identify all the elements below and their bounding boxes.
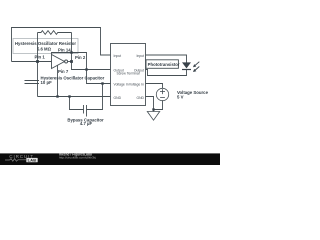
svg-text:GND: GND: [114, 96, 122, 100]
svg-text:4.7 µF: 4.7 µF: [80, 121, 93, 126]
svg-text:Input: Input: [114, 54, 122, 58]
svg-text:5 V: 5 V: [177, 94, 184, 99]
svg-text:Input: Input: [136, 54, 144, 58]
svg-text:5.6 MΩ: 5.6 MΩ: [37, 46, 52, 51]
wire bubble to output junction: [68, 61, 72, 63]
footer logo squiggle: [5, 159, 26, 162]
svg-text:Hysteresis Oscillator Resistor: Hysteresis Oscillator Resistor: [15, 41, 76, 46]
svg-text:Voltage In: Voltage In: [114, 83, 129, 87]
node junction Pin 7 at rail: [56, 95, 58, 97]
capacitor C1 plates: [25, 81, 40, 84]
footer bar: [0, 153, 220, 165]
node junction bypass left at rail: [68, 95, 70, 97]
label box Hysteresis Oscillator Resistor: [13, 39, 78, 54]
svg-text:http://circuitlab.com/c8kh3kj: http://circuitlab.com/c8kh3kj: [59, 156, 96, 160]
wire feedback right vertical: [71, 33, 73, 62]
node junction ground net: [152, 108, 154, 110]
phototransistor Q1 symbol: [182, 62, 191, 70]
resistor R1 zigzag: [38, 31, 72, 35]
svg-text:Pin 14: Pin 14: [58, 47, 71, 52]
label box Phototransistor: [146, 60, 180, 69]
svg-text:Pin 2: Pin 2: [75, 55, 86, 60]
svg-text:Screw Terminal: Screw Terminal: [116, 71, 139, 75]
ground symbol: [147, 112, 159, 121]
svg-text:Voltage In: Voltage In: [129, 83, 144, 87]
phototransistor light arrows: [193, 62, 199, 72]
wire terminal GND to ground node: [146, 97, 154, 112]
node junction feedback VCC crossing: [70, 51, 72, 53]
node junction output: [70, 60, 73, 63]
label Voltage Source: [177, 90, 209, 99]
capacitor C1 wire through: [37, 62, 39, 97]
wire feedback left vertical: [37, 33, 39, 62]
wire bypass branch right: [87, 84, 103, 110]
wire ground rail: [38, 96, 111, 98]
wire terminal Input to phototransistor collector: [146, 55, 187, 63]
footer logo LAB: [26, 158, 37, 162]
svg-text:GND: GND: [136, 96, 144, 100]
label Hysteresis Oscillator Capacitor: [41, 76, 105, 85]
wire top loop input to terminal Input: [12, 28, 111, 62]
screw terminal block J1: [111, 44, 146, 106]
svg-text:Pin 7: Pin 7: [58, 69, 69, 74]
svg-text:LAB: LAB: [28, 159, 37, 163]
wire gate output to terminal Output: [72, 62, 111, 70]
node junction Voltage In tee: [101, 82, 103, 84]
node junction output row crossing: [85, 68, 87, 70]
wire source minus to ground node: [154, 100, 163, 109]
wire Pin 7 ground stub: [57, 65, 59, 96]
screw terminal pin labels: [114, 54, 145, 100]
wire terminal Voltage In to source plus: [146, 84, 163, 89]
op-amp U1 inverter triangle: [52, 55, 65, 69]
voltage source V1 circle: [156, 88, 168, 100]
wire gate input: [12, 61, 52, 63]
wire phototransistor emitter to terminal Output: [146, 70, 187, 76]
wire bypass branch left: [70, 97, 84, 110]
label Bypass Capacitor: [67, 117, 104, 126]
wire Pin 14 VCC to Voltage In: [52, 53, 111, 84]
op-amp U1 output bubble: [65, 60, 68, 63]
svg-text:Pin 1: Pin 1: [35, 54, 46, 59]
svg-text:Phototransistor: Phototransistor: [148, 62, 180, 67]
voltage source plus minus: [160, 89, 165, 97]
capacitor C2 plates: [84, 105, 87, 117]
node junction input: [36, 60, 39, 63]
svg-text:10 pF: 10 pF: [41, 80, 53, 85]
